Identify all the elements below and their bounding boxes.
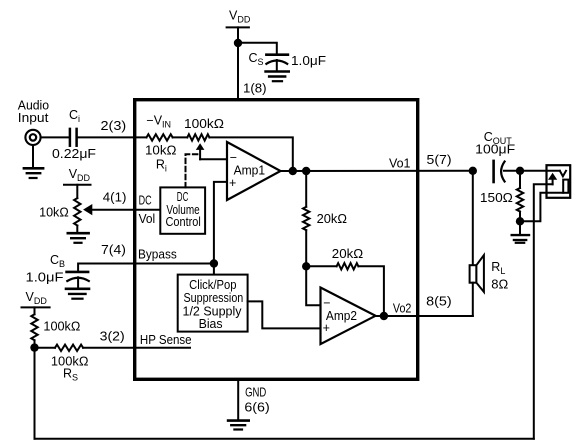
- capacitor CB: [67, 272, 89, 288]
- wire Ri to 100k: [173, 136, 188, 138]
- ground (CB): [66, 289, 89, 299]
- wire Amp1 + input down to bypass node: [214, 182, 227, 275]
- wire node to Amp2 inverting input: [306, 266, 320, 305]
- svg-text:Bias: Bias: [199, 317, 223, 331]
- wire Amp1 output: [281, 170, 473, 172]
- svg-text:8(5): 8(5): [426, 294, 452, 308]
- wire bottom rail: [35, 438, 534, 440]
- svg-text:HP Sense: HP Sense: [140, 333, 192, 347]
- resistor 20k (vertical): [303, 207, 309, 230]
- wire COUT to jack node: [504, 170, 520, 172]
- resistor 20k (feedback): [337, 263, 359, 269]
- wire bypass pin 7(4): [78, 264, 214, 272]
- node 20k junction: [302, 262, 310, 270]
- node HP sense junction: [30, 343, 38, 351]
- jack tip contact (switch V): [560, 171, 566, 177]
- wire jack to Ci: [41, 136, 69, 138]
- potentiometer 10k: [74, 185, 80, 233]
- pot wiper arrow (10k): [83, 204, 92, 215]
- svg-text:3(2): 3(2): [100, 330, 125, 344]
- svg-text:Vo2: Vo2: [393, 302, 412, 316]
- wire wiper to Amp1 inverting input: [200, 158, 227, 160]
- wire 20k to node: [305, 230, 307, 266]
- wire GND pin 6(6): [237, 380, 239, 420]
- ground (CS): [266, 72, 289, 82]
- capacitor Ci: [70, 129, 77, 146]
- svg-text:Ri: Ri: [156, 157, 167, 173]
- node bypass junction: [210, 259, 218, 267]
- svg-text:CS: CS: [249, 51, 264, 67]
- svg-text:Click/Pop: Click/Pop: [189, 278, 236, 292]
- node Vo1 output junction: [469, 167, 477, 175]
- dashed control line to wiper: [186, 154, 200, 187]
- resistor 150 ohm: [517, 171, 523, 222]
- svg-text:RS: RS: [63, 367, 78, 383]
- capacitor COUT: [494, 161, 505, 182]
- resistor RS 100k: [55, 345, 83, 351]
- node Amp1 out b: [302, 167, 310, 175]
- wire to CS: [238, 43, 277, 55]
- input jack connector: [25, 130, 40, 145]
- pot wiper arrow: [196, 143, 205, 159]
- VDD supply (HP sense): [22, 290, 50, 307]
- block Click/Pop Suppression 1/2 Supply Bias: [178, 275, 248, 332]
- svg-text:Amp2: Amp2: [326, 309, 357, 323]
- label Audio Input: [18, 99, 49, 125]
- node Amp1 out a: [289, 167, 297, 175]
- node junction at VDD: [234, 39, 242, 47]
- ground (pot): [68, 233, 89, 243]
- svg-text:6(6): 6(6): [244, 401, 269, 415]
- wire RS to pin 3(2): [83, 347, 190, 349]
- svg-text:+: +: [323, 321, 330, 335]
- op-amp Amp1: [227, 142, 281, 200]
- svg-text:GND: GND: [245, 385, 266, 399]
- wire output node down: [305, 171, 307, 207]
- capacitor CS: [266, 55, 288, 71]
- svg-text:+: +: [229, 176, 236, 190]
- svg-text:4(1): 4(1): [103, 191, 127, 205]
- wire wiper to DC Volume Control pin 4(1): [91, 209, 160, 211]
- svg-text:CB: CB: [50, 253, 65, 269]
- VDD supply (top): [227, 9, 251, 28]
- jack sleeve contact: [563, 180, 568, 193]
- svg-text:Control: Control: [166, 215, 201, 229]
- wire Ci to pin 2(3): [77, 136, 147, 138]
- resistor 100k (volume pot): [187, 134, 209, 140]
- svg-text:2(3): 2(3): [101, 119, 127, 133]
- svg-text:5(7): 5(7): [427, 153, 452, 167]
- wire 150 bottom to jack sleeve: [520, 193, 563, 222]
- svg-text:Bypass: Bypass: [138, 248, 177, 262]
- svg-text:VDD: VDD: [69, 167, 91, 183]
- ground (150 ohm): [512, 221, 529, 243]
- svg-text:1.0μF: 1.0μF: [291, 54, 326, 68]
- wire speaker to Vo2: [472, 283, 474, 316]
- svg-text:1(8): 1(8): [243, 82, 267, 96]
- svg-text:Input: Input: [18, 111, 49, 125]
- svg-text:−VIN: −VIN: [146, 114, 171, 130]
- feedback wire 100k to output node: [209, 137, 292, 171]
- wire Vo1 node down to speaker: [472, 171, 474, 265]
- resistor Ri 10k: [147, 134, 173, 140]
- wire node to headphone tip: [520, 170, 560, 172]
- svg-text:VDD: VDD: [26, 290, 48, 306]
- op-amp Amp2: [321, 288, 376, 345]
- wire jack switch to HP sense rail: [534, 184, 553, 438]
- wire node down to bottom rail: [34, 348, 36, 439]
- node 150 ohm bottom: [516, 217, 524, 225]
- jack plug arrow: [548, 173, 557, 185]
- svg-text:100μF: 100μF: [475, 143, 515, 157]
- svg-text:10kΩ: 10kΩ: [39, 206, 69, 220]
- headphone jack box: [547, 165, 571, 198]
- ground (GND pin): [228, 421, 249, 430]
- svg-text:RL: RL: [491, 260, 505, 276]
- svg-text:150Ω: 150Ω: [480, 191, 513, 205]
- svg-text:7(4): 7(4): [101, 243, 126, 257]
- svg-text:100kΩ: 100kΩ: [184, 117, 224, 131]
- svg-text:Amp1: Amp1: [234, 163, 266, 177]
- wire Amp2 output Vo2: [376, 315, 473, 317]
- svg-text:10kΩ: 10kΩ: [145, 144, 177, 158]
- ground (input jack): [24, 145, 43, 178]
- svg-text:DC: DC: [139, 194, 152, 208]
- IC outline box: [135, 100, 418, 380]
- svg-text:1.0μF: 1.0μF: [26, 271, 64, 285]
- block DC Volume Control: [160, 187, 205, 233]
- svg-text:0.22μF: 0.22μF: [52, 147, 96, 161]
- svg-text:100kΩ: 100kΩ: [43, 320, 80, 334]
- svg-text:8Ω: 8Ω: [491, 277, 508, 291]
- svg-text:VDD: VDD: [229, 9, 251, 25]
- speaker RL: [470, 255, 484, 292]
- wire node to 20k feedback: [306, 265, 336, 267]
- svg-text:Suppression: Suppression: [184, 291, 244, 305]
- node Vo2: [380, 312, 388, 320]
- label DC Vol: [139, 194, 156, 226]
- svg-text:Ci: Ci: [69, 108, 80, 124]
- svg-text:20kΩ: 20kΩ: [332, 247, 363, 261]
- wire node to RS: [35, 347, 56, 349]
- resistor 100k (pullup): [31, 307, 37, 347]
- wire VDD to pin 1(8): [237, 27, 239, 99]
- svg-text:Vo1: Vo1: [389, 157, 411, 171]
- node 150 ohm top: [516, 167, 524, 175]
- svg-text:20kΩ: 20kΩ: [317, 212, 347, 226]
- svg-text:Vol: Vol: [139, 212, 156, 226]
- VDD supply (pot): [64, 167, 91, 185]
- wire 20k feedback to Vo2 node: [358, 266, 384, 316]
- wire Click/Pop to Amp2 + input: [248, 301, 321, 328]
